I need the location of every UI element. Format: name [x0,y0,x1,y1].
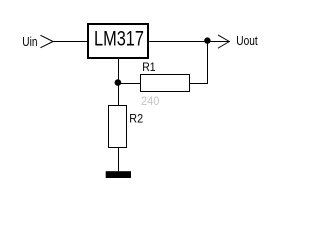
node junction dot at Uout [204,37,210,43]
op-amp U1 LM317 regulator box [88,24,148,58]
resistor R1 body [141,75,190,92]
node Uout port arrow [218,35,229,48]
wire R1 right up to output [189,42,208,84]
resistor R2 body [109,106,127,148]
node junction dot at adjust [115,79,122,86]
svg-text:Uout: Uout [236,34,258,48]
svg-text:R2: R2 [129,111,143,125]
svg-text:240: 240 [141,94,159,108]
wire junction to R1 left [118,83,141,85]
svg-text:LM317: LM317 [94,27,144,50]
svg-text:R1: R1 [142,60,156,74]
wire LM317 adjust pin down to R2 [118,58,120,106]
node Uin port chevron [41,35,53,47]
svg-text:Uin: Uin [22,35,37,49]
wire R2 bottom to ground [118,147,120,171]
wire Uin to LM317 input [53,41,88,43]
ground [106,171,131,178]
wire LM317 output to Uout [149,41,229,43]
